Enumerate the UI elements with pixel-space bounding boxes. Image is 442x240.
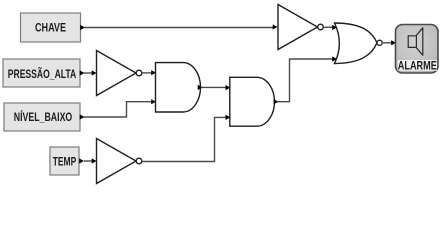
inverter U2 (NOT gate on PRESSÃO_ALTA) [97,51,142,96]
pin arrow into ALARME [391,40,396,45]
output arrow of AND1 [198,85,203,90]
svg-text:PRESSÃO_ALTA: PRESSÃO_ALTA [8,68,77,81]
output device ALARME (buzzer) [396,25,439,74]
inverter U3 (NOT gate on TEMP) [97,139,142,184]
pin arrow into AND2 bottom [226,115,231,120]
AND gate AND2 [230,77,275,126]
pin arrow into U3 [92,158,97,163]
wire PRESSÃO_ALTA to inverter U2 [84,72,92,74]
wire AND2 to OR gate bottom input [278,59,333,102]
wire NÍVEL_BAIXO to AND1 bottom input [84,102,152,117]
input pin NÍVEL_BAIXO [4,103,85,131]
pin arrow into OR top input [332,25,337,30]
pin arrow into OR bottom input [332,56,337,61]
wire TEMP to inverter U3 [84,160,92,162]
AND gate AND1 [156,63,201,112]
pin arrow into AND1 top [151,70,156,75]
svg-text:TEMP: TEMP [53,156,77,168]
label background [398,60,438,71]
pin arrow into U2 [92,70,97,75]
output arrow of AND2 [274,99,279,104]
wire U1 to OR gate top input [324,26,333,28]
pin arrow into AND2 top [226,85,231,90]
wire AND1 to AND2 top input [202,86,227,88]
input pin PRESSÃO_ALTA [3,59,85,87]
wire G1 to ALARME [382,42,392,44]
input pin CHAVE [21,13,86,42]
svg-text:ALARME: ALARME [398,60,437,72]
input pin TEMP [50,147,84,175]
inverter U1 (NOT gate on CHAVE) [278,5,323,50]
NOR gate G1 [335,23,383,64]
svg-text:CHAVE: CHAVE [35,23,66,35]
wire CHAVE to inverter U1 [84,27,273,29]
wire U3 to AND2 bottom input [142,117,226,161]
speaker icon [408,28,423,56]
pin arrow into AND1 bottom [151,99,156,104]
wire U2 to AND1 top input [142,72,152,74]
svg-text:NÍVEL_BAIXO: NÍVEL_BAIXO [14,111,73,124]
pin arrow into U1 [273,24,278,29]
